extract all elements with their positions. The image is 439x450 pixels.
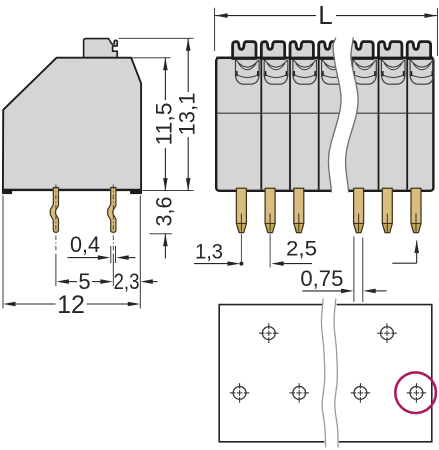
separator line position 4 (318, 59, 320, 190)
front solder pin 6 (411, 188, 421, 232)
wire entry shield position 2 (264, 60, 288, 85)
svg-text:12: 12 (57, 291, 85, 319)
front housing lower line (217, 112, 432, 114)
extension line right edge (139, 196, 141, 309)
break band front view (329, 38, 359, 193)
dimension 0,75 (300, 266, 386, 293)
extension line pin2 right edge (115, 246, 117, 263)
extension lines pin4 edges (354, 237, 363, 303)
front solder pin 4 (354, 188, 364, 232)
wire entry shield position 4 (322, 60, 346, 85)
drill symbol hole A1 top row (259, 323, 279, 343)
svg-text:0,4: 0,4 (70, 232, 100, 257)
dimension 5 (56, 269, 112, 294)
svg-text:13,1: 13,1 (175, 93, 200, 136)
extension line body bottom (143, 190, 194, 192)
wire entry shield position 3 (293, 60, 317, 85)
pcb outline (219, 305, 432, 442)
drill symbol hole B3 bottom row (351, 383, 371, 403)
front clamp tooth position 7 (407, 42, 430, 59)
dimension 2,5 (271, 238, 317, 266)
drill symbol hole B1 bottom row (230, 383, 250, 403)
dimension L (215, 0, 438, 56)
dimension 11,5 (152, 58, 177, 191)
svg-text:L: L (318, 0, 332, 30)
wire entry shield position 6 (381, 60, 405, 85)
extension line pin2 left edge (110, 246, 112, 263)
dimension 0,4 (68, 232, 136, 260)
svg-text:2,3: 2,3 (114, 269, 140, 294)
front clamp tooth position 5 (346, 42, 374, 59)
drill symbol hole B2 bottom row (289, 383, 309, 403)
svg-text:1,3: 1,3 (195, 241, 223, 264)
front clamp tooth position 6 (379, 42, 402, 59)
drill symbol hole B4 bottom row (407, 383, 427, 403)
front solder pin 5 (382, 188, 392, 232)
magenta highlight circle (395, 372, 436, 413)
dimension 12 (3, 291, 140, 319)
front solder pin 1 (236, 188, 246, 262)
extension line body top (133, 57, 171, 59)
pcb break lines (322, 299, 339, 448)
front housing top edge (216, 57, 433, 59)
front solder pin 3 (294, 188, 304, 232)
extension line tab top (119, 37, 194, 39)
dimension 2,3 (114, 269, 158, 294)
front clamp tooth position 4 (319, 42, 342, 59)
separator line position 3 (289, 59, 291, 190)
drill symbol hole A2 top row (377, 323, 397, 343)
side view body (2, 58, 141, 194)
svg-text:0,75: 0,75 (300, 266, 343, 291)
front view housing (216, 58, 433, 191)
svg-text:2,5: 2,5 (286, 238, 317, 261)
svg-text:11,5: 11,5 (152, 103, 177, 146)
leader arrow pin 6 (392, 241, 419, 264)
front clamp tooth position 3 (290, 42, 313, 59)
dimension 1,3 (194, 241, 243, 266)
front clamp tooth position 1 (233, 42, 256, 59)
extension line pin2 centre (112, 254, 114, 287)
wire entry shield position 7 (410, 60, 434, 85)
extension line pin1 centre (55, 254, 57, 287)
extension line left edge (2, 196, 4, 309)
separator line position 2 (260, 59, 262, 190)
dimension 3,6 (152, 197, 177, 259)
wire entry shield position 1 (236, 60, 260, 85)
svg-text:3,6: 3,6 (152, 197, 177, 227)
separator line position 6 (378, 59, 380, 190)
separator line position 7 (406, 59, 408, 190)
side view top latch tab (84, 39, 118, 58)
extension tick pin tip level (150, 233, 173, 235)
side view solder pin right (108, 185, 116, 253)
dimension 13,1 (175, 38, 200, 190)
side view solder pin left (50, 185, 58, 253)
front clamp tooth position 2 (261, 42, 284, 59)
wire entry shield position 5 (353, 60, 377, 85)
front solder pin 2 (265, 188, 275, 267)
